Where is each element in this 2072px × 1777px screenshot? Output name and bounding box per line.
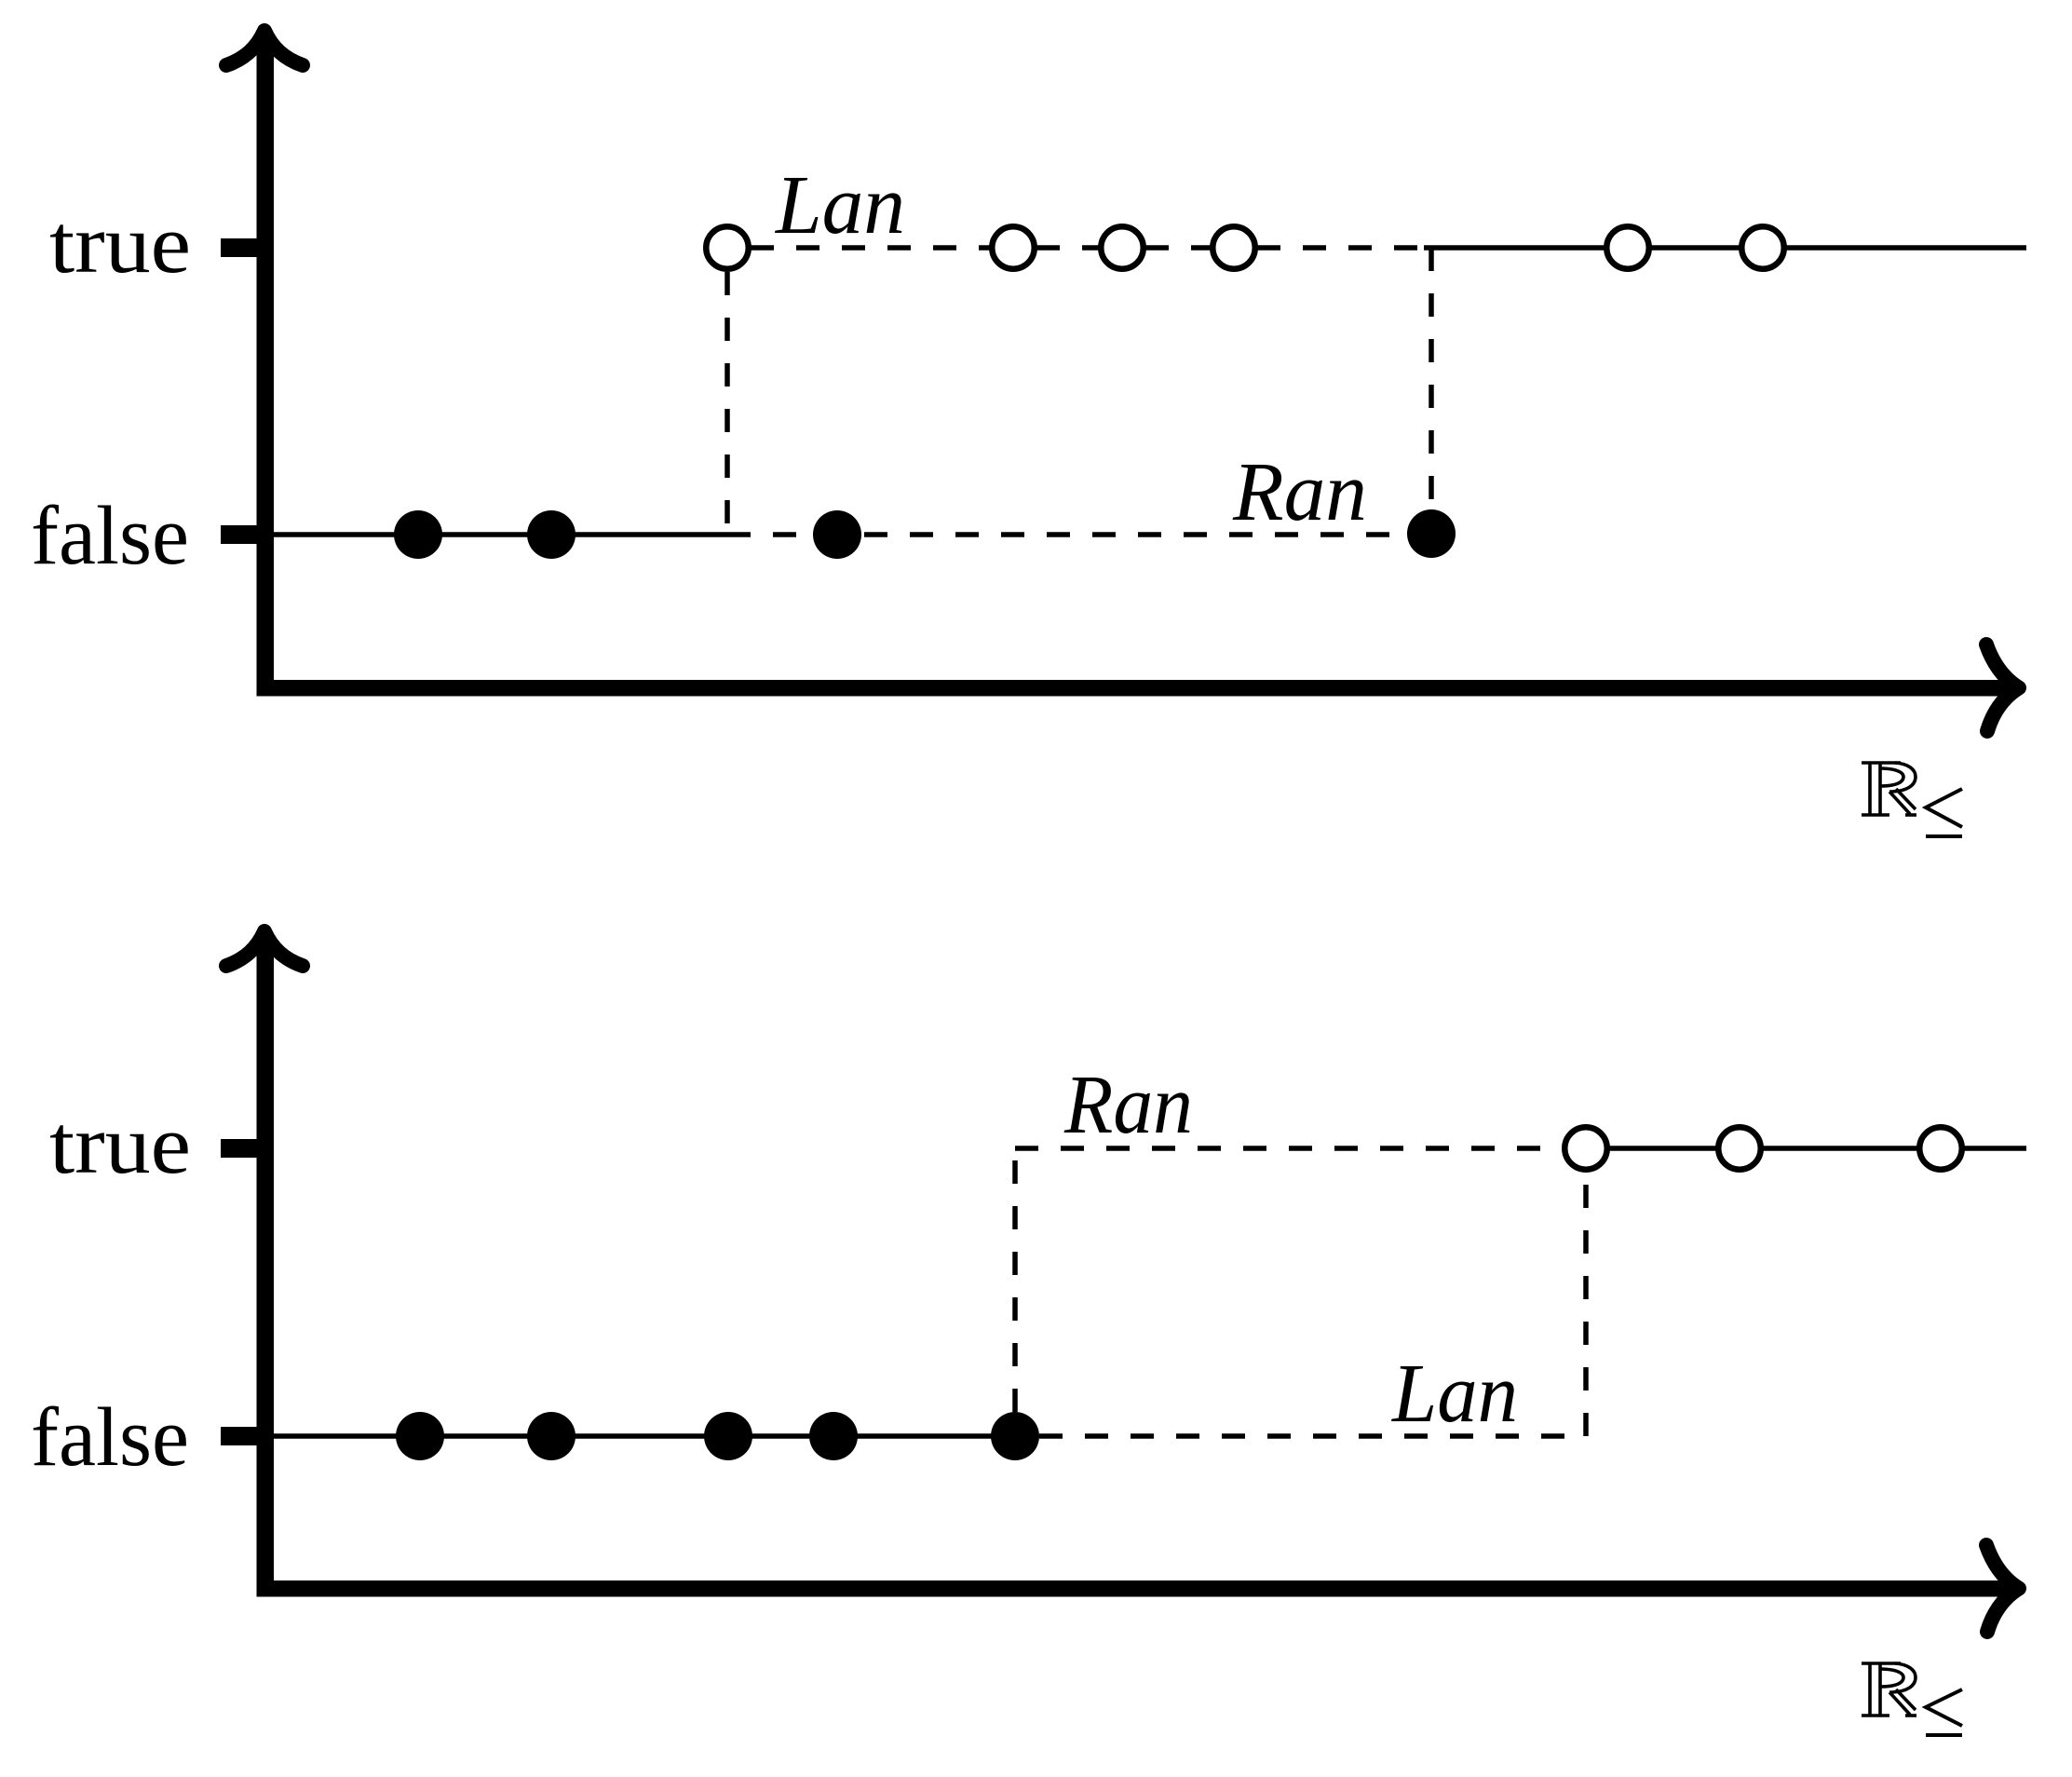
filled dot at x=782 false (bottom diagram)	[704, 1412, 752, 1460]
svg-text:Lan: Lan	[774, 159, 905, 251]
filled dot at x=592 false (top diagram)	[527, 510, 576, 559]
x-axis shaft (bottom diagram)	[257, 1580, 2012, 1597]
svg-text:true: true	[49, 198, 191, 291]
y-axis shaft (top diagram)	[257, 37, 275, 697]
true tick (bottom diagram)	[221, 1139, 257, 1158]
wire: true dashed line Lan segment 1 (top diagram)	[751, 245, 990, 251]
filled dot at x=899 false (top diagram)	[813, 510, 861, 559]
true tick (top diagram)	[221, 238, 257, 257]
wire: true dashed line Lan segment 4 (top diagram)	[1257, 245, 1424, 251]
svg-text:false: false	[31, 1391, 189, 1484]
y-axis arrowhead (top diagram)	[226, 31, 303, 65]
wire: true solid line (bottom diagram)	[1586, 1146, 2026, 1151]
wire: Lan vertical dashed jump at x=781 (top diagram)	[725, 272, 730, 535]
label R (blackboard bold) of axis (bottom diagram)	[1862, 1663, 1916, 1716]
filled dot at x=451 false (bottom diagram)	[396, 1412, 444, 1460]
open circle at x=1893 true (top diagram)	[1741, 226, 1784, 269]
label R (blackboard bold) of axis (top diagram)	[1862, 763, 1916, 815]
filled dot at x=592 false (bottom diagram)	[527, 1412, 576, 1460]
wire: true solid line (top diagram)	[1424, 245, 2026, 251]
open circle at x=781 true (top diagram)	[706, 226, 749, 269]
open circle at x=2084 true (bottom diagram)	[1919, 1127, 1962, 1170]
wire: false solid line (bottom diagram)	[274, 1433, 1015, 1439]
svg-text:false: false	[31, 490, 189, 582]
filled dot at x=1090 false endpoint (bottom diagram)	[991, 1412, 1039, 1460]
x-axis arrowhead (bottom diagram)	[1986, 1545, 2019, 1632]
svg-text:Ran: Ran	[1232, 446, 1367, 538]
open circle at x=1748 true (top diagram)	[1606, 226, 1649, 269]
false tick (top diagram)	[221, 525, 257, 544]
y-axis shaft (bottom diagram)	[257, 938, 275, 1597]
open circle at x=1088 true (top diagram)	[992, 226, 1035, 269]
wire: true dashed line Lan segment 3 (top diagram)	[1145, 245, 1211, 251]
svg-text:true: true	[49, 1099, 191, 1191]
open circle at x=1868 true (bottom diagram)	[1718, 1127, 1761, 1170]
wire: false dashed line Ran (top diagram)	[727, 532, 1407, 537]
filled dot at x=895 false (bottom diagram)	[809, 1412, 858, 1460]
svg-text:Ran: Ran	[1063, 1059, 1193, 1151]
x-axis arrowhead (top diagram)	[1986, 644, 2019, 731]
svg-text:Lan: Lan	[1390, 1348, 1518, 1440]
x-axis shaft (top diagram)	[257, 680, 2012, 697]
open circle at x=1205 true (top diagram)	[1101, 226, 1144, 269]
wire: Ran true dashed line (bottom diagram)	[1015, 1146, 1563, 1151]
wire: Lan false dashed line (bottom diagram)	[1039, 1433, 1586, 1439]
filled dot at x=449 false (top diagram)	[394, 510, 442, 559]
wire: Lan vertical dashed jump at x=1703 (bottom diagram)	[1583, 1172, 1589, 1436]
label leq subscript of axis (top diagram)	[1926, 789, 1962, 836]
y-axis arrowhead (bottom diagram)	[226, 931, 303, 966]
false tick (bottom diagram)	[221, 1427, 257, 1445]
wire: Ran vertical dashed jump at x=1090 (bottom diagram)	[1012, 1148, 1018, 1412]
open circle at x=1325 true (top diagram)	[1212, 226, 1255, 269]
wire: true dashed line Lan segment 2 (top diagram)	[1036, 245, 1099, 251]
wire: false solid line (top diagram)	[274, 532, 727, 537]
wire: Ran vertical dashed jump at x=1537 (top diagram)	[1429, 248, 1434, 509]
open circle at x=1703 true (bottom diagram)	[1564, 1127, 1607, 1170]
label leq subscript of axis (bottom diagram)	[1926, 1689, 1962, 1735]
filled dot at x=1537 false endpoint of Ran (top diagram)	[1407, 509, 1456, 558]
